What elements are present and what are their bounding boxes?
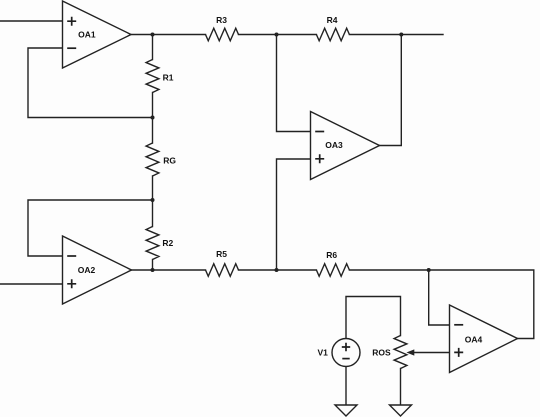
svg-text:OA4: OA4 bbox=[465, 334, 483, 344]
svg-text:OA1: OA1 bbox=[78, 30, 96, 40]
svg-text:R5: R5 bbox=[216, 249, 227, 259]
svg-text:ROS: ROS bbox=[372, 347, 391, 357]
svg-text:R2: R2 bbox=[162, 238, 173, 248]
svg-text:R4: R4 bbox=[327, 15, 338, 25]
svg-text:R1: R1 bbox=[163, 72, 174, 82]
svg-text:OA2: OA2 bbox=[78, 265, 96, 275]
svg-text:RG: RG bbox=[163, 155, 176, 165]
svg-text:R6: R6 bbox=[326, 250, 337, 260]
svg-text:R3: R3 bbox=[216, 15, 227, 25]
svg-text:OA3: OA3 bbox=[325, 140, 343, 150]
svg-text:V1: V1 bbox=[317, 348, 328, 358]
